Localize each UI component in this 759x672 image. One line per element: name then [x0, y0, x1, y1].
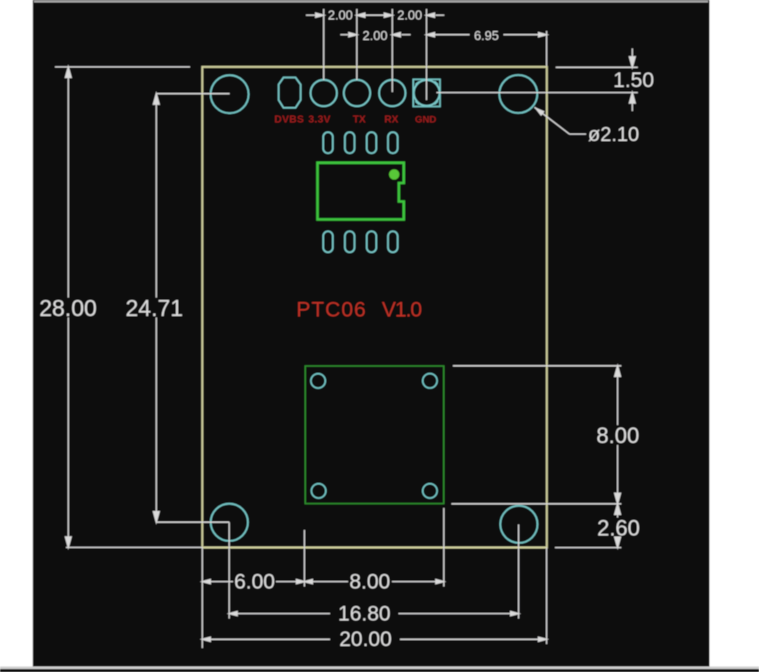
- IC U1 pin-1 dot: [389, 169, 399, 179]
- dimension 2.00 (TX-RX) row2: [340, 33, 410, 37]
- svg-text:RX: RX: [384, 115, 398, 126]
- IC U1 body: [318, 163, 404, 220]
- svg-text:6.95: 6.95: [474, 28, 499, 43]
- svg-text:8.00: 8.00: [349, 570, 390, 593]
- svg-text:28.00: 28.00: [39, 295, 97, 321]
- svg-text:2.00: 2.00: [397, 7, 422, 22]
- pad DVBS: [279, 78, 301, 108]
- dimension 16.80: [229, 612, 518, 616]
- leader dimension Ø2.10: [535, 107, 587, 134]
- extension line J1 right edge (bottom): [443, 508, 445, 587]
- dimension 6.95: [427, 31, 547, 66]
- svg-text:V1.0: V1.0: [382, 299, 422, 322]
- svg-text:PTC06: PTC06: [296, 299, 366, 322]
- pad RX: [379, 80, 405, 106]
- extension line pad RX: [391, 9, 393, 92]
- dimension 8.00 (bottom): [304, 580, 443, 584]
- extension line J1 left edge (bottom): [303, 530, 305, 587]
- dimension 2.00 (RX-GND) row1: [427, 13, 445, 17]
- J1 corner hole bottom-right: [423, 484, 437, 498]
- dimension 28.00: [55, 67, 202, 548]
- extension line PCB right edge (bottom): [546, 548, 548, 645]
- svg-text:GND: GND: [415, 115, 436, 126]
- dimension 2.60: [555, 504, 621, 548]
- photo bottom dark bar: [0, 669, 759, 672]
- PCB board outline: [202, 67, 547, 548]
- mounting hole H3 bottom-left: [211, 504, 248, 541]
- svg-text:20.00: 20.00: [339, 628, 392, 651]
- svg-text:24.71: 24.71: [126, 295, 184, 321]
- camera connector J1 outline: [305, 366, 443, 504]
- svg-text:1.50: 1.50: [613, 69, 654, 92]
- J1 corner hole top-left: [311, 374, 325, 388]
- extension line pad GND: [426, 9, 428, 100]
- svg-text:16.80: 16.80: [338, 602, 391, 625]
- page top edge line: [34, 1, 708, 3]
- extension line pad TX: [356, 9, 358, 80]
- J1 corner hole bottom-left: [311, 484, 325, 498]
- IC U1 top pad row: [323, 132, 397, 153]
- svg-text:2.00: 2.00: [328, 7, 353, 22]
- page bottom edge line: [0, 667, 759, 670]
- svg-text:DVBS: DVBS: [274, 114, 304, 125]
- mounting hole H4 bottom-right: [500, 506, 537, 543]
- wire GND pad to H2 center: [437, 92, 638, 94]
- extension line H4 center (bottom): [518, 525, 520, 619]
- mounting hole H2 top-right: [499, 75, 537, 113]
- svg-text:3.3V: 3.3V: [308, 114, 331, 125]
- pad 3.3V: [311, 80, 337, 106]
- svg-text:8.00: 8.00: [596, 423, 639, 448]
- J1 corner hole top-right: [423, 374, 437, 388]
- dimension 20.00: [202, 637, 546, 641]
- dimension 2.00 (3.3V-TX) row1: [306, 13, 392, 17]
- pad GND square outline: [413, 79, 440, 106]
- extension line PCB left edge (bottom): [201, 548, 203, 649]
- dimension 24.71: [153, 94, 229, 523]
- svg-text:2.00: 2.00: [363, 28, 388, 43]
- dimension 6.00: [202, 580, 304, 584]
- svg-text:ø2.10: ø2.10: [588, 124, 639, 146]
- dimension 1.50: [556, 49, 638, 112]
- dimension 8.00 (right): [451, 366, 621, 504]
- pad TX: [344, 80, 370, 106]
- mounting hole H1 top-left: [211, 75, 249, 113]
- extension line pad 3.3V: [323, 9, 325, 80]
- IC U1 bottom pad row: [323, 231, 397, 252]
- svg-text:2.60: 2.60: [597, 516, 640, 541]
- pad GND circle: [414, 80, 440, 106]
- extension line H3 center (bottom): [228, 522, 230, 618]
- svg-text:TX: TX: [353, 115, 366, 126]
- svg-text:6.00: 6.00: [234, 570, 275, 593]
